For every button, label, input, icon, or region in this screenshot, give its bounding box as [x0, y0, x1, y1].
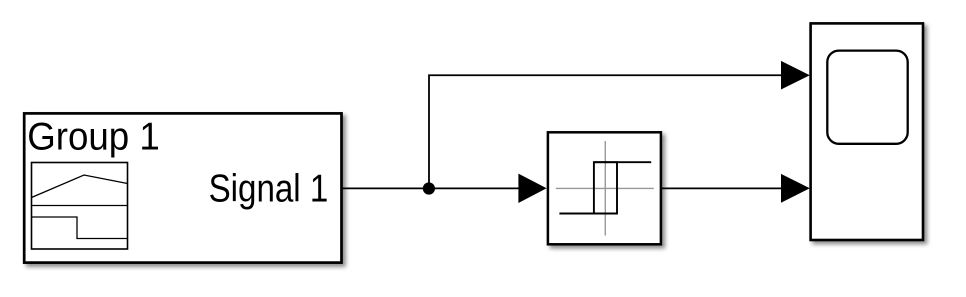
signal builder icon frame: [32, 163, 128, 250]
wire branch up and to scope input 1: [429, 75, 782, 188]
wire relay output to scope input 2: [661, 187, 782, 189]
relay block U1: [548, 132, 661, 244]
svg-text:Group 1: Group 1: [27, 116, 160, 159]
relay icon axis horizontal: [556, 187, 654, 189]
relay icon axis vertical: [604, 141, 606, 236]
junction node: [423, 182, 435, 194]
relay hysteresis top line: [594, 161, 651, 163]
icon waveform bottom (step): [32, 217, 128, 239]
arrowhead into scope port 2: [781, 174, 810, 203]
arrowhead into relay: [518, 174, 546, 203]
icon divider: [32, 205, 128, 207]
relay hysteresis curve: [559, 162, 617, 213]
icon waveform top: [32, 175, 128, 198]
wire from Signal Builder output to relay input: [342, 187, 520, 189]
scope screen: [827, 51, 907, 144]
signal builder block (Group 1): [24, 113, 341, 262]
svg-text:Signal 1: Signal 1: [209, 168, 329, 211]
scope block: [811, 23, 923, 240]
arrowhead into scope port 1: [781, 61, 810, 90]
